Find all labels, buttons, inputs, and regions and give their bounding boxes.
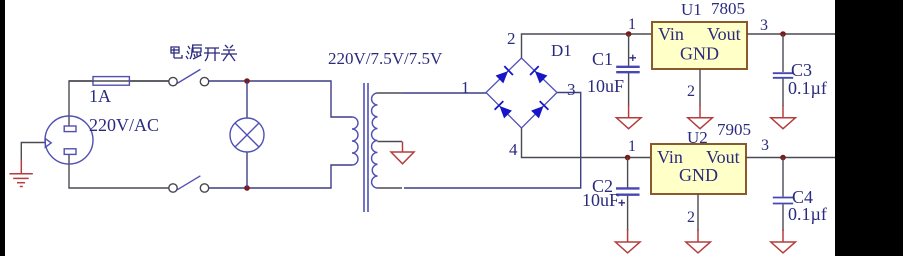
transformer T1 primary coil bbox=[352, 117, 358, 165]
wire earth to plug bbox=[21, 143, 45, 161]
wire secondary bottom to bridge right bbox=[404, 93, 581, 189]
diode lower-left bbox=[495, 101, 512, 118]
svg-text:1A: 1A bbox=[89, 86, 111, 106]
diode upper-left bbox=[496, 66, 513, 83]
wire lamp branch bottom bbox=[246, 152, 248, 188]
wire bottom rail plug to switch bbox=[69, 155, 169, 189]
wire top rail plug to switch bbox=[69, 81, 169, 126]
wire secondary top to bridge bbox=[402, 92, 486, 94]
svg-text:1: 1 bbox=[628, 16, 636, 33]
svg-text:0.1µf: 0.1µf bbox=[788, 78, 827, 98]
lamp DS1 bbox=[230, 118, 264, 152]
right black bar bbox=[835, 0, 903, 256]
svg-text:GND: GND bbox=[680, 44, 719, 64]
capacitor C1 bbox=[616, 34, 640, 106]
svg-text:3: 3 bbox=[567, 80, 576, 99]
IC U2 7905 bbox=[651, 144, 746, 194]
svg-text:1: 1 bbox=[461, 78, 470, 97]
junction dot C3 bbox=[780, 31, 786, 37]
svg-text:220V/7.5V/7.5V: 220V/7.5V/7.5V bbox=[328, 49, 443, 68]
svg-text:U1: U1 bbox=[681, 0, 702, 19]
svg-text:2: 2 bbox=[687, 83, 695, 100]
svg-text:Vin: Vin bbox=[658, 24, 684, 44]
svg-text:3: 3 bbox=[761, 137, 769, 154]
svg-text:C1: C1 bbox=[592, 49, 613, 69]
svg-text:2: 2 bbox=[687, 209, 695, 226]
ground U2 bbox=[686, 229, 711, 253]
svg-text:3: 3 bbox=[760, 17, 768, 34]
transformer secondary pin stubs bbox=[378, 93, 403, 188]
ground U1 bbox=[688, 105, 713, 129]
svg-text:220V/AC: 220V/AC bbox=[89, 115, 159, 135]
left black bar bbox=[0, 0, 5, 256]
svg-text:U2: U2 bbox=[687, 128, 708, 147]
svg-text:Vout: Vout bbox=[706, 147, 740, 167]
wire lamp branch top bbox=[246, 81, 248, 118]
ground C3 bbox=[771, 105, 796, 129]
transformer T1 secondary coil bbox=[372, 93, 378, 188]
wire switch to transformer top bbox=[209, 81, 352, 117]
svg-text:GND: GND bbox=[679, 165, 718, 185]
wire bridge top to U1 rail bbox=[522, 34, 653, 58]
junction dot C2 bbox=[625, 155, 631, 161]
svg-text:1: 1 bbox=[628, 138, 636, 155]
AC plug connector bbox=[45, 116, 93, 164]
svg-text:2: 2 bbox=[507, 29, 516, 48]
U2 GND pin lead bbox=[697, 194, 699, 231]
svg-text:C3: C3 bbox=[791, 60, 812, 80]
svg-text:D1: D1 bbox=[551, 41, 572, 60]
junction dot C4 bbox=[780, 155, 786, 161]
switch S1 top bbox=[169, 69, 209, 85]
capacitor C3 bbox=[773, 34, 793, 106]
IC U1 7805 bbox=[652, 22, 747, 69]
transformer core bbox=[364, 83, 368, 212]
switch S2 bottom bbox=[169, 176, 209, 192]
U1 GND pin lead bbox=[699, 69, 701, 106]
wire U2 Vout rail bbox=[746, 157, 835, 159]
ground C4 bbox=[771, 229, 796, 253]
ground earth symbol bbox=[9, 159, 32, 187]
svg-text:Vin: Vin bbox=[657, 147, 683, 167]
junction dot C1 bbox=[626, 31, 632, 37]
ground C1 bbox=[616, 105, 641, 129]
svg-text:4: 4 bbox=[509, 140, 518, 159]
capacitor C2 bbox=[616, 158, 640, 232]
junction dot bottom lamp bbox=[244, 185, 250, 191]
svg-text:10uF: 10uF bbox=[587, 76, 624, 96]
bridge rectifier D1 diamond bbox=[486, 58, 557, 128]
svg-text:7805: 7805 bbox=[711, 0, 745, 18]
power ground arrow at center tap bbox=[391, 142, 414, 164]
diode upper-right bbox=[530, 66, 547, 83]
junction dot top lamp bbox=[244, 78, 250, 84]
svg-text:10uF: 10uF bbox=[582, 190, 619, 210]
svg-text:7905: 7905 bbox=[717, 120, 751, 139]
svg-text:0.1µf: 0.1µf bbox=[788, 204, 827, 224]
fuse F 1A bbox=[69, 77, 169, 86]
ground C2 bbox=[615, 229, 640, 253]
wire bridge bottom to U2 rail bbox=[522, 128, 652, 158]
label 电源开关 (power switch, drawn strokes) bbox=[171, 45, 237, 61]
wire U1 Vout rail bbox=[747, 33, 835, 35]
diode lower-right bbox=[531, 101, 548, 118]
capacitor C4 bbox=[773, 158, 793, 232]
wire switch to transformer bottom bbox=[209, 165, 352, 188]
svg-text:Vout: Vout bbox=[707, 24, 741, 44]
